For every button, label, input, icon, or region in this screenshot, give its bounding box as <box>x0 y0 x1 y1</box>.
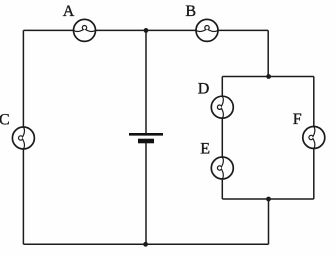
wire battery top segment <box>145 30 147 133</box>
lamp B <box>196 19 218 41</box>
wire drop from parallel bottom to bottom rail <box>268 199 270 244</box>
node junction bottom battery <box>143 242 148 247</box>
svg-text:C: C <box>0 111 10 128</box>
lamp D <box>211 96 233 118</box>
wire parallel top rail <box>222 76 313 78</box>
wire parallel bottom rail <box>222 198 313 200</box>
lamp A <box>74 19 96 41</box>
node junction parallel bottom <box>266 197 271 202</box>
wire D-E branch <box>221 77 223 200</box>
battery cell <box>129 134 163 141</box>
svg-text:B: B <box>185 3 196 20</box>
svg-text:F: F <box>293 111 302 128</box>
node junction top battery <box>144 28 149 33</box>
wire bottom rail <box>23 243 268 245</box>
node junction parallel top <box>266 74 271 79</box>
wire F branch <box>313 77 315 200</box>
wire right drop from top rail <box>267 30 269 76</box>
wire top rail <box>23 29 268 31</box>
lamp C <box>12 127 34 149</box>
lamp E <box>211 157 233 179</box>
lamp F <box>303 127 325 149</box>
svg-text:E: E <box>200 140 210 157</box>
svg-text:A: A <box>63 3 75 20</box>
wire left side <box>22 30 24 244</box>
wire battery bottom segment <box>145 141 147 244</box>
svg-text:D: D <box>198 81 210 98</box>
